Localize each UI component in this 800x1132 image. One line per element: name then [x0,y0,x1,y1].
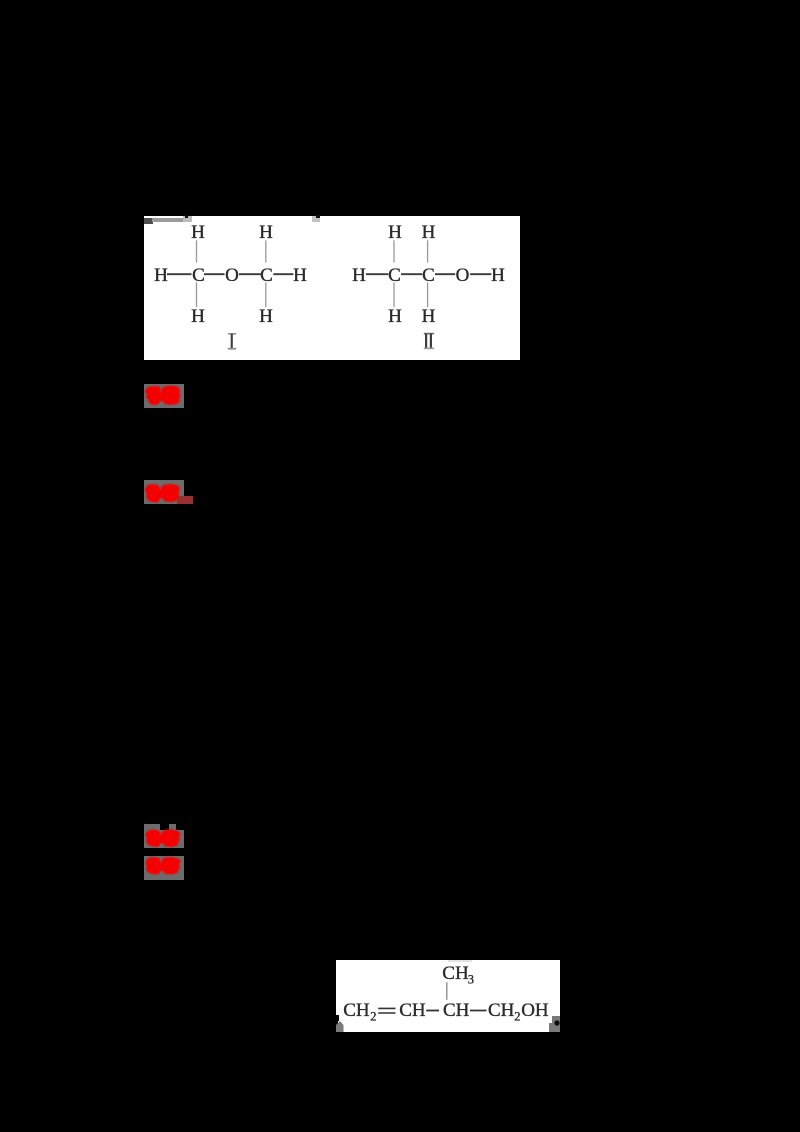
red redacted block 4 [144,856,184,880]
svg-text:H: H [422,306,436,327]
red redacted block 3 (gray with notched top) [144,824,160,831]
svg-text:C: C [260,265,273,286]
bond C2-H top (vertical) [427,240,429,262]
group CH2OH [488,1000,515,1021]
bond CH-CH [426,1010,439,1012]
svg-text:C: C [192,265,205,286]
bond C2-H bottom (vertical) [265,282,267,307]
scan artifact: gray tab with black notch at x=183 [183,216,192,222]
bond CH3 to CH (vertical) [446,982,448,1000]
scan artifact: gray corner mark bottom-left [336,1021,344,1032]
white panel B: CH2=CH-CH(CH3)-CH2OH [336,960,560,1032]
svg-text:H: H [259,306,273,327]
group CH (central) [443,1000,470,1021]
svg-text:3: 3 [468,973,474,987]
scan artifact: faint strip at panel B top [448,960,472,962]
group CH2 (vinyl) [343,1000,370,1021]
label I (roman numeral) [228,333,236,350]
bond H-C1 [366,273,388,275]
svg-text:H: H [154,265,168,286]
bond C1-C2 [401,273,422,275]
bond C1-O [204,273,225,275]
svg-text:H: H [388,306,402,327]
svg-text:CH: CH [399,1000,426,1021]
svg-text:O: O [456,265,470,286]
svg-text:CH: CH [442,963,469,984]
bond C2-H bottom (vertical) [427,282,429,307]
bond O-H [470,273,491,275]
dark red strip right of block 2 [177,496,193,504]
svg-text:H: H [422,222,436,243]
bond H-C1 [167,273,192,275]
scan artifact: gray strip along panel A top [152,218,183,222]
svg-text:C: C [422,265,435,286]
red redacted block 1 [144,384,184,408]
svg-text:H: H [259,222,273,243]
bond C1-H bottom (vertical) [393,282,395,307]
svg-text:CH: CH [488,1000,515,1021]
scan artifact: dark gray block at panel A top-left [144,218,153,224]
svg-text:CH: CH [443,1000,470,1021]
scan artifact: gray tab with black notch at x=312 [312,216,320,222]
scan artifact: gray corner mark bottom-right with black dot [552,1016,560,1032]
bond C1-H top (vertical) [393,240,395,262]
svg-text:H: H [191,306,205,327]
bond C2-H [273,273,293,275]
svg-text:H: H [491,265,505,286]
group CH (vinyl) [399,1000,426,1021]
bond CH-CH2 [470,1010,487,1012]
svg-text:H: H [388,222,402,243]
white panel A: structures I and II [144,216,520,360]
structure I : dimethyl ether H-C-O-C-H [154,222,307,327]
structure II : ethanol H-C-C-O-H [352,222,505,327]
svg-text:CH: CH [343,1000,370,1021]
svg-text:OH: OH [521,1000,549,1021]
bond C1-H bottom (vertical) [196,282,198,307]
svg-text:H: H [191,222,205,243]
svg-text:2: 2 [514,1010,520,1024]
bond C1-H top (vertical) [196,240,198,262]
svg-text:2: 2 [370,1010,376,1024]
bond C2-O [435,273,455,275]
SVG overlay: structural formulas I and II [144,216,520,360]
bond C2-H top (vertical) [265,240,267,262]
bond O-C2 [239,273,262,275]
group CH3 [442,963,469,984]
svg-text:H: H [352,265,366,286]
svg-text:O: O [225,265,239,286]
red redacted block 2 [144,480,184,504]
scan artifact: black notch at panel B left edge [336,1015,339,1021]
double bond CH2=CH [378,1007,395,1009]
svg-text:H: H [293,265,307,286]
label II (roman numeral) [424,333,434,349]
